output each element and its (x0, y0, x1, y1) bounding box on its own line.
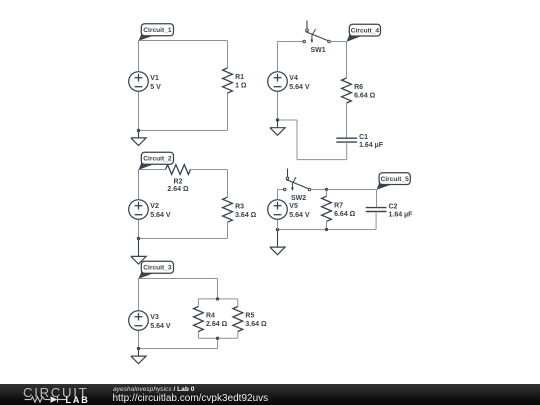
svg-text:R5: R5 (245, 313, 254, 320)
svg-text:5.64 V: 5.64 V (150, 323, 171, 330)
svg-text:LAB: LAB (66, 395, 90, 405)
svg-text:V3: V3 (150, 314, 159, 321)
svg-text:R2: R2 (174, 179, 183, 186)
svg-text:3.64 Ω: 3.64 Ω (235, 212, 257, 219)
svg-text:Circuit_1: Circuit_1 (143, 27, 172, 34)
svg-text:Circuit_2: Circuit_2 (143, 156, 172, 163)
svg-text:V5: V5 (289, 203, 298, 210)
svg-text:R6: R6 (354, 84, 363, 91)
svg-text:SW2: SW2 (291, 195, 306, 202)
svg-text:R7: R7 (334, 202, 343, 209)
svg-text:2.64 Ω: 2.64 Ω (206, 321, 228, 328)
svg-text:R4: R4 (206, 313, 215, 320)
svg-text:5.64 V: 5.64 V (289, 212, 310, 219)
svg-text:5.64 V: 5.64 V (150, 212, 171, 219)
svg-text:SW1: SW1 (311, 47, 326, 54)
svg-text:6.64 Ω: 6.64 Ω (334, 211, 356, 218)
svg-text:1.64 µF: 1.64 µF (359, 142, 384, 149)
svg-text:R1: R1 (235, 74, 244, 81)
svg-text:6.64 Ω: 6.64 Ω (354, 93, 376, 100)
svg-text:C1: C1 (359, 134, 368, 141)
svg-text:R3: R3 (235, 203, 244, 210)
svg-text:C2: C2 (389, 204, 398, 211)
svg-text:1.64 µF: 1.64 µF (389, 211, 414, 218)
svg-text:Circuit_3: Circuit_3 (143, 265, 172, 272)
svg-text:2.64 Ω: 2.64 Ω (167, 186, 189, 193)
svg-text:5.64 V: 5.64 V (289, 84, 310, 91)
svg-text:5 V: 5 V (150, 84, 161, 91)
svg-text:V1: V1 (150, 75, 159, 82)
svg-text:3.64 Ω: 3.64 Ω (245, 321, 267, 328)
svg-text:Circuit_5: Circuit_5 (381, 176, 410, 183)
svg-text:V2: V2 (150, 203, 159, 210)
svg-text:Circuit_4: Circuit_4 (351, 28, 380, 35)
svg-text:V4: V4 (289, 75, 298, 82)
svg-text:1 Ω: 1 Ω (235, 83, 247, 90)
